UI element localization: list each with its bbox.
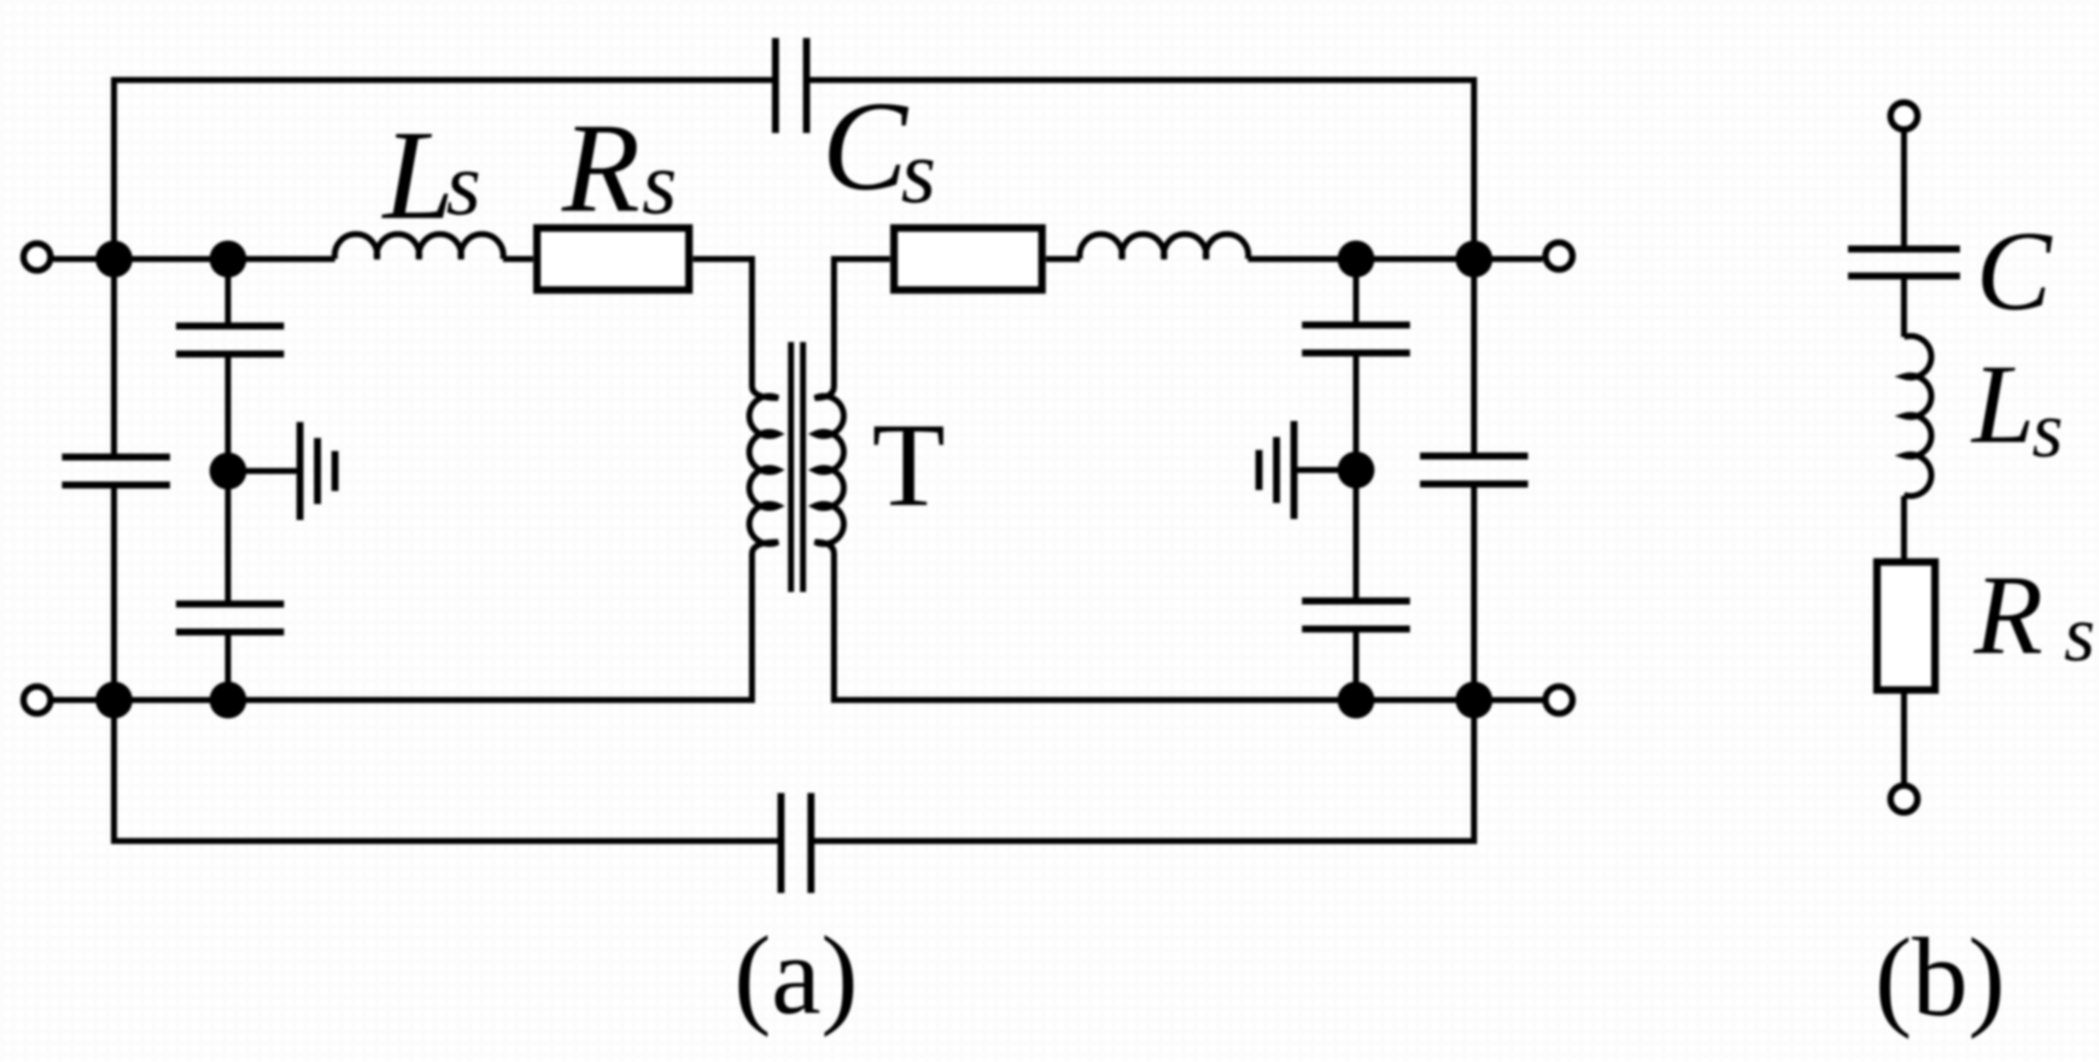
svg-text:C: C [1976,209,2053,334]
node junction D1 [1456,241,1493,278]
svg-text:T: T [872,398,945,531]
transformer T core [788,342,794,592]
inductor Ls b [1904,336,1931,496]
wire column C bottom [1353,629,1359,700]
capacitor column B lower [176,601,284,608]
wire column D upper [1471,259,1477,456]
inductor right [1080,234,1249,259]
wire column C middle [1353,353,1359,601]
svg-text:L: L [381,104,454,246]
wire top rail left segment [114,80,774,259]
wire resistor to transformer [693,256,752,262]
wire upper rail left [54,256,336,262]
svg-text:R: R [1973,553,2043,678]
wire lower bypass right [813,700,1474,841]
wire bottom rail right [834,697,1543,703]
capacitor column D [1420,453,1528,460]
terminal port 2 upper [1546,243,1573,270]
terminal b top [1891,103,1918,130]
svg-text:C: C [822,75,909,217]
wire inductor to resistor [503,256,533,262]
svg-text:R: R [561,97,640,239]
terminal b bottom [1891,786,1918,813]
wire b bottom [1901,690,1907,783]
wire top rail right segment [809,80,1475,259]
node junction B2 [210,682,247,719]
wire b inductor to resistor [1901,496,1907,562]
svg-text:L: L [1970,342,2035,467]
svg-text:(b): (b) [1875,916,2006,1040]
wire ground stub right [1294,467,1356,473]
wire resistor to inductor right [1046,256,1080,262]
node junction A2 [96,682,133,719]
wire transformer to resistor right [834,256,890,262]
terminal port 1 lower [24,687,51,714]
wire bottom rail left [54,697,753,703]
svg-text:s: s [446,135,481,234]
wire column B middle [225,354,231,604]
capacitor column C upper [1302,322,1410,329]
svg-text:s: s [642,134,677,233]
wire column A upper [111,259,117,457]
capacitor column A [62,454,170,461]
node ground junction right [1338,452,1375,489]
wire upper rail right [1248,256,1543,262]
transformer T right winding [815,256,844,703]
terminal port 1 upper [24,244,51,271]
node junction C2 [1338,682,1375,719]
svg-text:s: s [2032,386,2063,474]
wire column C upper [1353,259,1359,325]
wire lower bypass left [114,700,779,841]
inductor Ls left [335,234,504,259]
node junction D2 [1456,682,1493,719]
wire column B upper [225,259,231,326]
capacitor column B upper [176,323,284,330]
capacitor Cs top plates [772,38,779,133]
wire column A lower [111,485,117,700]
transformer T left winding [749,256,778,703]
capacitor bottom bypass plates [778,793,785,893]
wire b top [1901,133,1907,250]
terminal port 2 lower [1546,687,1573,714]
node junction C1 [1338,241,1375,278]
resistor Rs left [537,228,689,290]
node ground junction left [210,453,247,490]
capacitor C b [1848,246,1960,253]
wire ground stub left [228,468,300,474]
svg-text:s: s [901,123,936,222]
node junction B1 [210,241,247,278]
resistor Rs b [1877,562,1935,690]
resistor right [894,228,1042,290]
svg-text:s: s [2064,590,2095,678]
wire column B bottom [225,632,231,700]
ground left [297,422,304,520]
svg-text:(a): (a) [734,914,858,1038]
capacitor column C lower [1302,598,1410,605]
wire column D lower [1471,484,1477,700]
wire b cap to inductor [1901,276,1907,337]
ground right [1291,421,1298,519]
node junction A1 [96,241,133,278]
